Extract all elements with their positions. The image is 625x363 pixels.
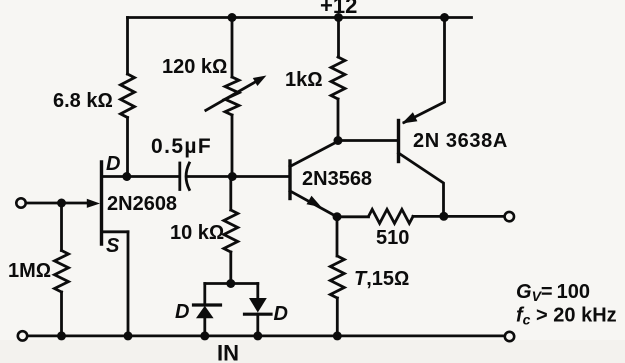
svg-text:1kΩ: 1kΩ [285,69,323,91]
svg-text:2N3568: 2N3568 [302,168,372,190]
svg-text:2N 3638A: 2N 3638A [413,130,508,152]
svg-text:IN: IN [217,341,239,363]
svg-text:510: 510 [376,227,409,249]
svg-text:0.5µF: 0.5µF [151,135,212,158]
svg-text:fc > 20 kHz: fc > 20 kHz [516,305,617,328]
svg-text:2N2608: 2N2608 [107,193,177,215]
svg-text:6.8 kΩ: 6.8 kΩ [53,90,113,112]
svg-text:D: D [274,303,288,325]
svg-text:T,15Ω: T,15Ω [354,268,409,290]
svg-text:D: D [175,301,189,323]
svg-text:+12: +12 [320,0,357,18]
svg-text:D: D [106,153,120,175]
svg-text:S: S [106,235,120,257]
svg-text:GV= 100: GV= 100 [516,281,590,304]
svg-text:1MΩ: 1MΩ [8,260,51,282]
svg-text:120 kΩ: 120 kΩ [162,56,227,78]
svg-text:10 kΩ: 10 kΩ [170,222,224,244]
